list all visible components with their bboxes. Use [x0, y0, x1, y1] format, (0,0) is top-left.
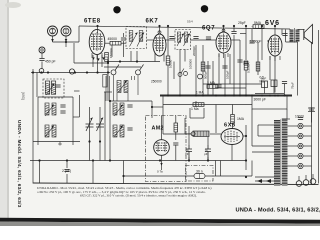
svg-text:AM2: AM2: [152, 126, 164, 132]
svg-text:1 MA: 1 MA: [207, 81, 216, 85]
svg-text:25pF: 25pF: [238, 21, 246, 25]
svg-text:100000: 100000: [189, 59, 193, 69]
svg-text:2 (uF): 2 (uF): [62, 169, 71, 173]
svg-text:0 Ta: 0 Ta: [157, 170, 163, 174]
svg-text:UNDA - Modd. 53/4, 63/1, 63/2,: UNDA - Modd. 53/4, 63/1, 63/2, 63/3: [17, 120, 22, 208]
svg-text:53/4: 53/4: [187, 20, 193, 24]
svg-text:1 MA.: 1 MA.: [196, 91, 204, 95]
svg-text:45000: 45000: [108, 37, 118, 41]
svg-text:6X5: 6X5: [224, 123, 236, 129]
svg-text:450 pF: 450 pF: [45, 60, 56, 64]
svg-text:5MA: 5MA: [254, 21, 262, 25]
svg-text:6K7: 6K7: [146, 19, 159, 25]
svg-text:1000pF: 1000pF: [250, 40, 262, 44]
svg-text:10000: 10000: [169, 59, 173, 68]
svg-text:2000pF: 2000pF: [192, 46, 196, 56]
svg-text:1MA: 1MA: [237, 117, 245, 121]
svg-text:75uF: 75uF: [291, 82, 295, 89]
svg-text:pF: pF: [204, 152, 208, 156]
svg-text:6Q7: 6Q7: [202, 26, 215, 32]
svg-text:3000 pF: 3000 pF: [254, 98, 266, 102]
svg-text:30 n: 30 n: [196, 170, 203, 174]
svg-text:1 Ma: 1 Ma: [191, 107, 199, 111]
svg-text:[693]: [693]: [21, 92, 25, 100]
svg-text:UNDA - Modd. 53/4, 63/1, 63/2,: UNDA - Modd. 53/4, 63/1, 63/2, 63/3: [236, 207, 320, 213]
svg-text:6V6: 6V6: [265, 20, 280, 27]
svg-text:1500pF: 1500pF: [109, 48, 113, 58]
svg-text:pF: pF: [185, 152, 189, 156]
svg-text:6TE8: 6TE8: [84, 19, 101, 25]
svg-text:10000: 10000: [295, 115, 304, 119]
svg-text:0.25MA: 0.25MA: [247, 63, 251, 73]
svg-text:500pF: 500pF: [204, 70, 208, 79]
svg-text:Ma.: Ma.: [260, 79, 265, 83]
svg-text:250000: 250000: [151, 80, 162, 84]
svg-text:100pF: 100pF: [226, 70, 230, 79]
